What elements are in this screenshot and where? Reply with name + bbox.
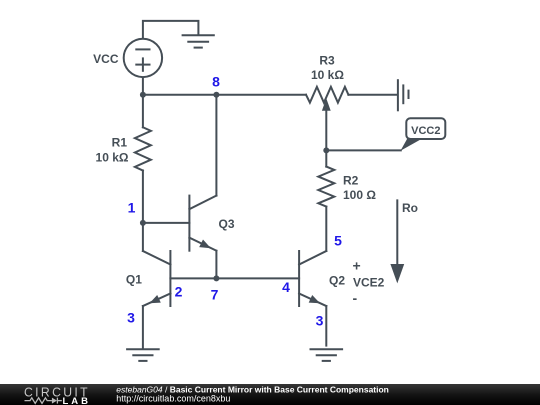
svg-text:R3: R3 [319, 54, 335, 68]
svg-text:LAB: LAB [63, 396, 92, 405]
svg-text:4: 4 [282, 279, 290, 295]
wire Q3 emitter down to node 7 [215, 251, 217, 279]
logo squiggle and diode [25, 398, 62, 404]
svg-text:Q1: Q1 [126, 273, 142, 287]
svg-text:Q3: Q3 [219, 217, 235, 231]
ground G4 right rotated [398, 80, 409, 110]
potentiometer R3 [306, 87, 397, 151]
svg-text:10 kΩ: 10 kΩ [311, 68, 344, 82]
net flag VCC2 [401, 118, 446, 151]
junction node 8 [213, 92, 219, 98]
svg-text:5: 5 [334, 233, 342, 249]
svg-text:1: 1 [128, 200, 136, 216]
svg-text:3: 3 [127, 310, 135, 326]
svg-text:8: 8 [212, 74, 220, 90]
wire Q3 base from node 1 [143, 222, 190, 224]
svg-text:7: 7 [211, 287, 219, 303]
svg-text:Q2: Q2 [329, 274, 345, 288]
svg-text:-: - [352, 290, 357, 306]
junction node at VCC bottom [140, 92, 146, 98]
resistor R1 [135, 95, 151, 223]
voltage source VCC [124, 39, 162, 77]
ground G3 right [311, 349, 343, 361]
junction node 7 [213, 275, 219, 281]
footer bar [0, 384, 540, 405]
svg-text:Ro: Ro [402, 201, 418, 215]
junction node R2 top [323, 147, 329, 153]
ground G1 top [183, 35, 214, 47]
junction node 1 [140, 220, 146, 226]
transistor Q2 [299, 251, 326, 306]
svg-text:+: + [353, 258, 361, 274]
transistor Q3 [189, 196, 216, 251]
wire Q1 collector up to node 1 [142, 223, 144, 251]
wire VCC bottom [142, 77, 144, 94]
wire VCC top to ground [143, 21, 199, 39]
wire Q3 collector up to rail [215, 95, 217, 196]
svg-text:R1: R1 [112, 136, 128, 150]
wire Q1 emitter down [142, 306, 144, 349]
transistor Q1 [143, 251, 171, 306]
wire base rail node 2-7-4 [170, 277, 299, 279]
svg-text:2: 2 [175, 284, 183, 300]
svg-text:http://circuitlab.com/cen8xbu: http://circuitlab.com/cen8xbu [116, 393, 230, 403]
wire top rail node 8 [143, 94, 306, 96]
svg-text:VCC2: VCC2 [411, 125, 440, 137]
svg-text:100 Ω: 100 Ω [343, 188, 376, 202]
wire Q2 emitter down [325, 306, 327, 346]
svg-text:VCE2: VCE2 [353, 276, 385, 290]
wire Q2 collector up to R2 [325, 207, 327, 251]
wire node to VCC2 flag [326, 149, 401, 151]
resistor R2 [318, 150, 334, 206]
ground G2 left [127, 349, 159, 361]
svg-text:VCC: VCC [93, 52, 119, 66]
svg-text:3: 3 [316, 313, 324, 329]
svg-text:10 kΩ: 10 kΩ [96, 151, 129, 165]
arrow Ro [390, 200, 404, 283]
svg-text:R2: R2 [343, 174, 359, 188]
